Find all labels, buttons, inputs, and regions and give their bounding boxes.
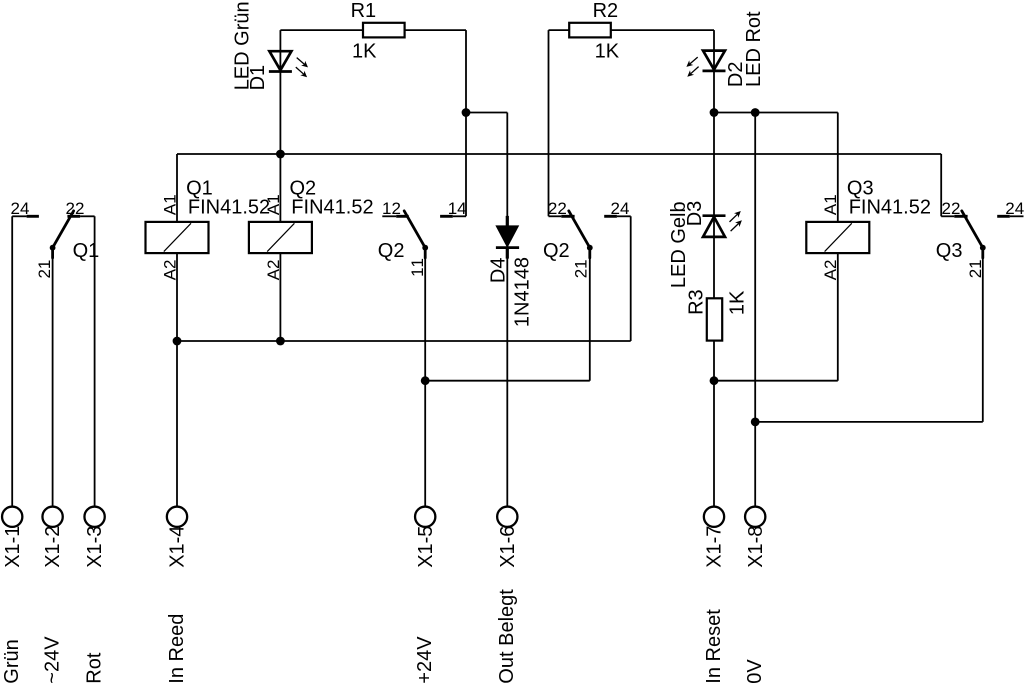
svg-text:0V: 0V [744, 659, 766, 683]
svg-text:A2: A2 [264, 259, 283, 280]
resistor R3 body [707, 298, 722, 340]
terminal X1-3 circle [84, 507, 104, 527]
svg-text:FIN41.52: FIN41.52 [849, 197, 931, 219]
terminal X1-2 circle [42, 507, 62, 527]
svg-text:1K: 1K [352, 41, 377, 63]
svg-text:A1: A1 [821, 194, 840, 215]
relay Q1 coil diagonal [164, 223, 191, 251]
svg-text:22: 22 [942, 199, 961, 218]
wire bus A1 right end down to contact Q3 pin 22 [940, 154, 942, 216]
svg-text:1N4148: 1N4148 [512, 257, 534, 327]
svg-text:X1-7: X1-7 [704, 526, 726, 568]
wire bus A1 to relay Q1 A1 [176, 154, 178, 222]
diode D4 top pin stub [506, 216, 509, 226]
svg-text:X1-3: X1-3 [84, 526, 106, 568]
contact Q1 moving arm [53, 211, 74, 258]
contact Q2b pin 22 bar [549, 215, 562, 217]
wire R1 to right corner [405, 29, 466, 31]
svg-text:11: 11 [408, 258, 427, 277]
junction bus A1 / relay Q2 A1 [276, 150, 285, 159]
junction X1-7 wire / branch [710, 376, 719, 385]
diode D4 bottom pin stub [506, 248, 509, 259]
wire X1-5 branch to contact Q2 common 21 [425, 380, 590, 382]
contact Q3 common pivot [980, 245, 986, 251]
svg-text:24: 24 [1005, 199, 1024, 218]
resistor R2 body [569, 23, 611, 38]
terminal X1-8 circle [745, 507, 765, 527]
relay coil Q1 FIN41.52 [146, 222, 209, 253]
wire X1-8 branch to contact Q3 common 21 [755, 421, 983, 423]
svg-text:X1-4: X1-4 [167, 526, 189, 568]
svg-text:FIN41.52: FIN41.52 [188, 197, 270, 219]
svg-text:R1: R1 [351, 0, 377, 22]
svg-text:24: 24 [611, 199, 630, 218]
LED D3 cathode bar [703, 214, 726, 217]
terminal X1-5 circle [415, 507, 435, 527]
wire R1 right corner down to contact 14 [465, 30, 467, 216]
junction X1-5 wire / branch [421, 376, 430, 385]
svg-text:A1: A1 [160, 194, 179, 215]
wire R2 left corner down to contact Q2 pin 22 [548, 30, 550, 216]
junction X1-8 wire / branch [751, 418, 760, 427]
terminal X1-7 circle [704, 507, 724, 527]
wire LED D1 top corner to R1 [280, 29, 363, 31]
contact Q2 moving arm [404, 211, 425, 258]
wire bus A1 horizontal [177, 153, 941, 155]
svg-text:Grün: Grün [1, 639, 23, 683]
svg-text:~24V: ~24V [41, 636, 63, 683]
svg-text:+24V: +24V [414, 636, 436, 683]
LED D2 triangle [703, 51, 725, 70]
contact Q2b common pivot [587, 245, 593, 251]
svg-text:X1-5: X1-5 [415, 526, 437, 568]
svg-text:1K: 1K [726, 290, 748, 315]
relay Q2 coil diagonal [267, 223, 294, 251]
svg-text:In Reset: In Reset [703, 609, 725, 683]
contact Q1 pin 24 bar [12, 215, 26, 217]
svg-text:LED Grün: LED Grün [232, 1, 254, 90]
svg-text:Q2: Q2 [543, 240, 570, 262]
contact Q2b moving arm [569, 211, 590, 258]
svg-text:Q2: Q2 [378, 240, 405, 262]
svg-text:X1-8: X1-8 [745, 526, 767, 568]
contact Q3 moving arm [962, 211, 983, 258]
wire bus2 coil return horizontal [177, 340, 631, 342]
svg-text:A2: A2 [821, 259, 840, 280]
svg-text:12: 12 [382, 199, 401, 218]
wire top corner through LED D1 to bus A1 and relay Q2 A1 [279, 30, 281, 222]
wire relay Q2 A2 to bus2 [279, 253, 281, 341]
contact Q1 common pivot [50, 245, 56, 251]
wire contact Q2 common 11 down to X1-5 [424, 258, 426, 507]
svg-text:Q3: Q3 [936, 240, 963, 262]
svg-text:21: 21 [35, 260, 54, 279]
relay Q3 coil diagonal [825, 223, 852, 251]
svg-text:Q1: Q1 [73, 240, 100, 262]
contact Q2 pin 14 bar [440, 215, 453, 218]
svg-text:X1-1: X1-1 [2, 526, 24, 568]
diode D4 triangle [497, 226, 518, 246]
relay coil Q2 FIN41.52 [249, 222, 312, 253]
LED D2 light arrows [690, 57, 698, 64]
svg-text:X1-2: X1-2 [42, 526, 64, 568]
junction D2 cathode node [710, 108, 719, 117]
wire node to relay Q3 A1 [837, 113, 839, 222]
terminal X1-4 circle [167, 507, 187, 527]
wire left corner to R2 [549, 29, 570, 31]
wire D2 cathode node to relay Q3 A1 corner [714, 112, 838, 114]
LED D2 cathode bar [703, 70, 726, 73]
contact Q2b pin 24 bar [604, 215, 617, 218]
contact Q2 common pivot [422, 245, 428, 251]
wire X1-7 branch to relay Q3 A2 [714, 380, 838, 382]
junction bus2 / relay Q1 A2 [173, 337, 182, 346]
junction bus2 / relay Q2 A2 [276, 337, 285, 346]
resistor R1 body [363, 23, 405, 38]
wire 0V node down to X1-8 [754, 113, 756, 507]
svg-text:FIN41.52: FIN41.52 [291, 197, 373, 219]
svg-text:22: 22 [548, 199, 567, 218]
svg-text:22: 22 [66, 199, 85, 218]
svg-text:In Reed: In Reed [166, 614, 188, 683]
diode D4 cathode bar [496, 246, 519, 249]
wire contact Q2 pin 24 down to bus2 [630, 216, 632, 341]
terminal X1-1 circle [2, 507, 22, 527]
svg-text:Rot: Rot [83, 652, 105, 683]
contact Q2 pin 12 bar [382, 215, 396, 217]
wire X1-1 to contact Q1 pin 24 [11, 216, 13, 506]
svg-text:X1-6: X1-6 [497, 526, 519, 568]
junction R1 / D4 node [462, 108, 471, 117]
svg-text:LED Rot: LED Rot [743, 11, 765, 87]
svg-text:R2: R2 [593, 0, 619, 22]
svg-text:LED Gelb: LED Gelb [668, 201, 690, 288]
svg-text:21: 21 [571, 259, 590, 278]
svg-text:21: 21 [966, 259, 985, 278]
wire top corner through LED D2 and LED D3 to R3 [713, 30, 715, 298]
wire relay Q1 A2 down to X1-4 [176, 253, 178, 506]
svg-text:A2: A2 [160, 259, 179, 280]
svg-text:D4: D4 [488, 258, 510, 284]
wire R3 down to X1-7 [713, 341, 715, 507]
svg-text:R3: R3 [685, 289, 707, 315]
wire contact Q2 common 21 down [589, 258, 591, 381]
relay coil Q3 FIN41.52 [806, 222, 869, 253]
wire node R1/D4 [466, 112, 507, 114]
wire contact Q3 common 21 down [982, 258, 984, 422]
wire R2 to LED D2 top corner [611, 29, 714, 31]
svg-text:Out Belegt: Out Belegt [496, 589, 518, 683]
svg-text:1K: 1K [595, 41, 620, 63]
contact Q3 pin 22 bar [941, 215, 954, 217]
svg-text:24: 24 [11, 199, 30, 218]
LED D1 cathode bar [269, 70, 292, 73]
LED D1 triangle [269, 51, 291, 70]
contact Q3 pin 24 bar [997, 215, 1010, 218]
LED D1 light arrows [297, 58, 305, 65]
wire X1-3 to contact Q1 pin 22 [94, 216, 96, 506]
wire X1-2 to contact Q1 common 21 [52, 258, 54, 507]
terminal X1-6 circle [497, 507, 517, 527]
contact Q1 pin 22 bar [67, 215, 80, 218]
svg-text:A1: A1 [264, 194, 283, 215]
LED D3 light arrows [730, 214, 738, 222]
wire node through diode D4 down to X1-6 [506, 113, 508, 507]
LED D3 triangle [703, 217, 725, 237]
wire relay Q3 A2 down [837, 253, 839, 381]
svg-text:14: 14 [448, 199, 467, 218]
junction 0V node [751, 108, 760, 117]
